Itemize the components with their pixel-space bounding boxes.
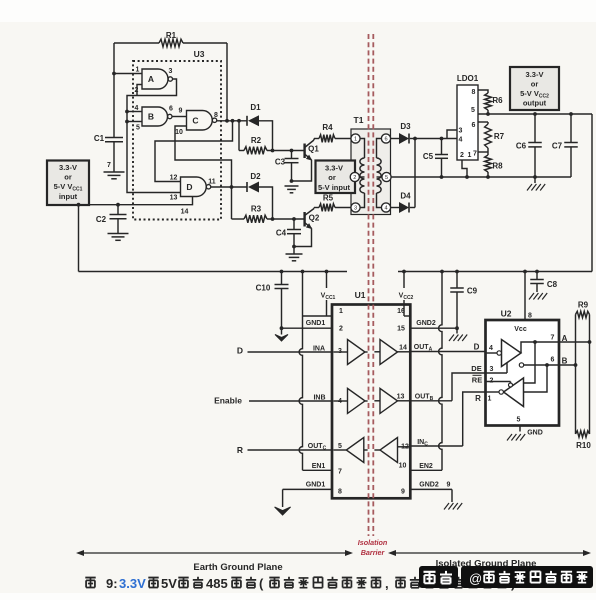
svg-text:Earth Ground Plane: Earth Ground Plane: [193, 562, 282, 573]
isolation barrier dashed lines: [369, 34, 374, 536]
svg-text:1: 1: [488, 396, 492, 403]
svg-text:EN2: EN2: [419, 463, 433, 470]
svg-text:R10: R10: [576, 441, 591, 450]
diode D3: [391, 122, 417, 144]
wire U2 pin 4 D input: [486, 345, 498, 353]
svg-text:15: 15: [397, 326, 405, 333]
diode D4: [391, 192, 415, 214]
svg-text:2: 2: [353, 175, 356, 181]
wire U1 pin 10 EN2: [410, 463, 442, 470]
wire DE: [452, 364, 486, 401]
wire Q2 emitter to C4 ground node: [294, 228, 312, 246]
wire Q1 emitter to C3 ground node: [292, 160, 312, 181]
svg-text:1: 1: [339, 308, 343, 315]
ground below C1: [104, 172, 125, 179]
wire D4 cathode up to D3 cathode: [414, 139, 416, 208]
svg-text:12: 12: [170, 175, 178, 182]
ground (hatched) below U2 pin 5: [507, 434, 512, 441]
IC U3 dashed outline: [133, 49, 221, 220]
wire U1 pin 1: [303, 315, 333, 317]
wire U1 pin 8 GND1 to ground: [283, 482, 332, 508]
ground (hatched) below C6: [527, 177, 545, 191]
svg-text:2: 2: [339, 326, 343, 333]
wire U2 pin 2 RE stub: [486, 378, 511, 385]
svg-text:Vcc: Vcc: [514, 326, 527, 333]
svg-text:13: 13: [397, 394, 405, 401]
svg-text:INA: INA: [313, 346, 325, 353]
resistor R6: [485, 93, 504, 114]
svg-text:(: (: [259, 576, 264, 591]
wire U1 pin 14 OUTA to U2 pin 4 (D): [410, 343, 485, 353]
wire LDO pin 7 to R7/R8 junction: [478, 151, 488, 153]
wire U1 pin 16: [404, 315, 410, 317]
svg-text:C6: C6: [516, 142, 527, 151]
svg-text:1: 1: [468, 152, 472, 159]
svg-text:Q1: Q1: [308, 145, 319, 154]
svg-text:8: 8: [214, 112, 218, 119]
svg-text:D: D: [474, 343, 480, 352]
U1 pin numbers left: [338, 308, 343, 496]
svg-text:10: 10: [175, 129, 183, 136]
U1 channel C internal wires: [334, 447, 410, 450]
gate B (U3): [135, 105, 174, 132]
svg-text:GND1: GND1: [306, 482, 326, 489]
svg-text:485: 485: [206, 576, 228, 591]
isolated ground plane extent arrow: [388, 550, 591, 556]
resistor R1: [159, 31, 183, 47]
wire cross-couple C output to gate D pin 12: [155, 121, 233, 182]
svg-text:Barrier: Barrier: [361, 548, 386, 557]
box 3.3-V or 5-V Vcc2 output: [510, 67, 559, 110]
svg-text:A: A: [148, 74, 154, 84]
svg-text:,: ,: [385, 576, 389, 591]
svg-text:10: 10: [399, 463, 407, 470]
svg-text:C10: C10: [256, 284, 271, 293]
wire gate A input 1 from R1/C1 node: [112, 72, 142, 76]
wire driver inverted output B (pin 6): [519, 357, 577, 368]
svg-text:GND: GND: [527, 430, 543, 437]
svg-text:6: 6: [384, 137, 387, 143]
svg-text:GND2: GND2: [416, 320, 436, 327]
svg-text:3: 3: [338, 348, 342, 355]
wire Vcc1 rail (earth side): [79, 270, 348, 274]
svg-text:7: 7: [551, 335, 555, 342]
svg-text:EN1: EN1: [312, 463, 326, 470]
resistor R3: [232, 187, 268, 223]
svg-text:input: input: [59, 192, 78, 201]
svg-text:6: 6: [169, 106, 173, 113]
transistor Q1: [305, 140, 320, 161]
svg-text:GND2: GND2: [419, 482, 439, 489]
wire LDO pin 5 output line: [478, 112, 592, 116]
svg-text:D4: D4: [400, 192, 411, 201]
svg-text:A: A: [562, 334, 568, 343]
svg-text:R1: R1: [166, 31, 177, 40]
svg-text:8: 8: [338, 489, 342, 496]
svg-text:5: 5: [136, 125, 140, 132]
svg-text:D: D: [237, 346, 243, 356]
svg-text:R4: R4: [322, 123, 333, 132]
svg-text:14: 14: [181, 209, 189, 216]
wire U2 pin 8 Vcc stub: [514, 272, 532, 334]
wire isolated ground rail (T1 pin 5 center tap): [391, 175, 571, 179]
svg-text:B: B: [562, 357, 568, 366]
wire U1 pin 7 EN1: [303, 463, 333, 470]
svg-text:3: 3: [459, 128, 463, 135]
svg-text:1: 1: [135, 67, 139, 74]
svg-text:C9: C9: [467, 287, 478, 296]
svg-text:9: 9: [401, 489, 405, 496]
svg-text:13: 13: [170, 195, 178, 202]
svg-text:U3: U3: [194, 49, 205, 59]
svg-text:Enable: Enable: [214, 396, 242, 406]
wire LDO pins 2/1 to isolated ground rail: [462, 160, 469, 179]
resistor R5: [314, 194, 352, 212]
svg-text:D: D: [186, 182, 192, 192]
svg-text:5-V input: 5-V input: [318, 183, 351, 192]
transformer T1: [351, 115, 391, 215]
wire LDO pin 8 to R6: [478, 90, 488, 93]
svg-text:8: 8: [472, 89, 476, 96]
svg-text:C2: C2: [96, 215, 107, 224]
Isolation Barrier red label: [358, 538, 388, 557]
caption 图9：3.3V或5V隔离485节点（左边是大地地平面，右边是隔离地平面）: [85, 576, 515, 591]
svg-text:14: 14: [399, 345, 407, 352]
earth ground plane extent arrow: [76, 550, 353, 556]
wire gate B output to gate C input 9: [172, 116, 186, 118]
svg-text:5: 5: [471, 107, 475, 114]
U1 channel B internal wires: [334, 400, 410, 402]
wire Vcc2 rail (isolated side): [398, 270, 592, 274]
svg-text:R: R: [475, 394, 481, 403]
wire U1 pin 2 GND1: [282, 320, 333, 328]
wire D1 to R2 junction: [259, 121, 274, 153]
wire U1 pin 12 INC from U2 R: [410, 439, 462, 448]
capacitor C5: [423, 139, 448, 178]
capacitor C9: [450, 272, 477, 331]
capacitor C2: [96, 203, 127, 234]
svg-text:6: 6: [472, 122, 476, 129]
Vcc1 label and drop to U1 pin 1: [321, 272, 336, 317]
resistor R7: [485, 122, 505, 155]
capacitor C8: [530, 272, 557, 293]
capacitor C3: [275, 151, 299, 183]
svg-text:R2: R2: [251, 136, 262, 145]
svg-text:Q2: Q2: [309, 214, 320, 223]
svg-text:3: 3: [354, 206, 357, 212]
wire driver output to A (pin 7): [521, 334, 591, 353]
node R output: [237, 443, 332, 455]
wire gate D output to D2: [211, 186, 247, 188]
svg-text:R6: R6: [492, 96, 503, 105]
svg-text:D3: D3: [400, 122, 411, 131]
wire Vcc1 left rail down to main rail: [77, 203, 81, 272]
svg-text:D2: D2: [250, 172, 261, 181]
svg-text:8: 8: [528, 313, 532, 320]
svg-text:U1: U1: [355, 290, 366, 300]
ground below C10 / GND1 pin 2: [275, 328, 288, 341]
svg-text:11: 11: [208, 179, 216, 186]
svg-text:3.3-V: 3.3-V: [59, 163, 77, 172]
svg-text:C5: C5: [423, 152, 434, 161]
svg-text:5V: 5V: [161, 576, 177, 591]
T1 secondary winding: [377, 139, 382, 208]
svg-text:RE: RE: [472, 376, 482, 385]
box 3.3-V or 5-V Vcc1 input: [47, 161, 89, 206]
svg-text:4: 4: [459, 137, 463, 144]
svg-text:C1: C1: [94, 134, 105, 143]
svg-text:DE: DE: [471, 364, 481, 373]
ground (hatched) below C9 / GND2 pin 15: [449, 328, 467, 341]
wire B node to receiver input: [524, 365, 548, 392]
svg-text:R8: R8: [492, 162, 503, 171]
svg-text:or: or: [328, 173, 336, 182]
wire output line down right edge to Vcc2 rail: [591, 114, 593, 272]
svg-text:U2: U2: [501, 309, 512, 319]
svg-text:INB: INB: [313, 395, 325, 402]
svg-text:R: R: [237, 445, 243, 455]
svg-text:3.3-V: 3.3-V: [526, 70, 544, 79]
svg-text:R9: R9: [578, 301, 589, 310]
wire rectified supply to LDO input pins 3/4: [415, 130, 457, 140]
wire gate D pin 14 to Vcc1 input net: [89, 197, 193, 216]
watermark 头条@电子工程师笔记: [419, 566, 593, 588]
EN2 tie vertical (rail to pin 10): [439, 272, 442, 471]
svg-text:5: 5: [385, 175, 388, 181]
svg-text:12: 12: [401, 444, 409, 451]
wire U2 pin 1 R output: [486, 392, 500, 403]
node D input: [237, 346, 332, 356]
capacitor C7: [552, 114, 578, 177]
wire U2 pin 3 DE stub: [486, 363, 508, 373]
wire R from U2 pin 1: [463, 392, 486, 446]
capacitor C4: [276, 219, 301, 248]
capacitor C1: [94, 134, 123, 172]
diode D2: [247, 172, 261, 193]
IC U1: [332, 290, 410, 498]
U2 receiver triangle: [499, 378, 524, 407]
svg-text:4: 4: [338, 398, 342, 405]
svg-text:Isolation: Isolation: [358, 538, 388, 547]
wire U1 pin 13 OUTB to DE: [410, 394, 452, 403]
svg-text:6: 6: [551, 357, 555, 364]
svg-text:C3: C3: [275, 158, 286, 167]
wire U1 pin 15 GND2: [410, 320, 457, 328]
IC U2: [486, 309, 560, 426]
wire U2 pin 5 GND: [517, 417, 543, 437]
wire B-side vertical (R9 to R10 left): [575, 315, 577, 435]
wire R2/D1 to Q1 base: [267, 149, 304, 153]
wires gate B inputs from A output net: [125, 110, 142, 124]
box 3.3-V or 5-V input: [316, 161, 356, 194]
ground below U1 pin 8: [275, 507, 291, 515]
node Enable input: [214, 395, 332, 406]
capacitor C6: [516, 114, 542, 177]
wire gate C output (pin 8 net): [217, 119, 247, 123]
ground (hatched) below C8: [529, 293, 534, 300]
svg-text:4: 4: [384, 206, 387, 212]
Vcc2 label and drop to U1 pin 16: [399, 272, 414, 317]
ground (hatched) below U1 pin 9: [444, 503, 449, 510]
svg-text:3.3-V: 3.3-V: [325, 164, 343, 173]
gate C (U3): [175, 108, 218, 137]
svg-text:9: 9: [447, 482, 451, 489]
gate A (U3): [135, 67, 173, 95]
svg-text:7: 7: [338, 469, 342, 476]
svg-text:or: or: [64, 173, 72, 182]
regulator LDO1: [457, 74, 479, 160]
svg-text:output: output: [523, 99, 547, 108]
svg-text:9: 9: [179, 108, 183, 115]
svg-text:4: 4: [489, 345, 493, 352]
wire R3/D2 to Q2 base: [267, 217, 304, 221]
wire top feedback loop (R1 net): [114, 43, 227, 138]
svg-text:7: 7: [107, 162, 111, 169]
gate D (U3): [170, 175, 216, 202]
resistor R2: [239, 121, 267, 155]
svg-text:C8: C8: [547, 280, 558, 289]
wire gate A feedback to input 2 and gate B inputs and gate D pin 13: [127, 79, 181, 193]
U1 buffer channel A triangles: [348, 340, 398, 365]
diode D1: [247, 103, 261, 126]
EN1 tie vertical (rail to pin 7): [299, 272, 302, 471]
svg-text:or: or: [531, 80, 539, 89]
svg-text:@: @: [469, 571, 482, 586]
svg-text:B: B: [148, 112, 154, 122]
svg-text:7: 7: [473, 151, 477, 158]
svg-text:R5: R5: [323, 194, 334, 203]
svg-text:LDO1: LDO1: [457, 74, 479, 83]
svg-text:2: 2: [460, 152, 464, 159]
wire D2 to R3 junction: [259, 187, 274, 221]
U2 driver triangle: [497, 340, 521, 367]
resistor R8: [485, 155, 504, 179]
svg-text:1: 1: [354, 137, 357, 143]
resistor R10 (A-B termination bottom): [576, 431, 592, 450]
transistor Q2: [305, 209, 320, 230]
svg-text:R7: R7: [494, 132, 505, 141]
svg-text:3: 3: [490, 366, 494, 373]
svg-text:GND1: GND1: [306, 320, 326, 327]
resistor R9 (A-B termination top): [576, 301, 590, 318]
svg-text:5: 5: [517, 417, 521, 424]
T1 pin circles: [350, 134, 391, 212]
svg-text:5: 5: [338, 443, 342, 450]
svg-text:2: 2: [490, 378, 494, 385]
U1 channel A internal wires: [334, 351, 410, 353]
resistor R4: [314, 123, 352, 142]
svg-text:3: 3: [169, 68, 173, 75]
wire gate C input 10 from gate D output: [175, 126, 233, 189]
ground below C3: [285, 185, 299, 187]
svg-text:C: C: [192, 115, 198, 125]
U1 buffer channel B triangles: [348, 388, 398, 413]
svg-text:3.3V: 3.3V: [119, 576, 146, 591]
T1 primary winding: [360, 139, 365, 208]
RE label (active low): [472, 375, 482, 384]
U1 buffer channel C triangles (reverse): [346, 438, 397, 463]
svg-text:T1: T1: [354, 115, 364, 125]
svg-text:C7: C7: [552, 142, 563, 151]
svg-text:9:: 9:: [106, 576, 118, 591]
ground below C2: [108, 233, 129, 235]
ground below C4: [286, 247, 303, 261]
svg-text:D1: D1: [250, 103, 261, 112]
svg-text:C4: C4: [276, 229, 287, 238]
wire LDO pin 6 to R7: [478, 121, 488, 123]
wire A node to receiver input: [524, 342, 536, 383]
svg-text:R3: R3: [251, 205, 262, 214]
wire U1 pin 9 GND2 to ground: [410, 482, 452, 503]
U1 pin numbers right: [397, 308, 409, 496]
capacitor C10: [256, 272, 289, 331]
wire A-side vertical (R9 to R10 right): [589, 315, 591, 435]
